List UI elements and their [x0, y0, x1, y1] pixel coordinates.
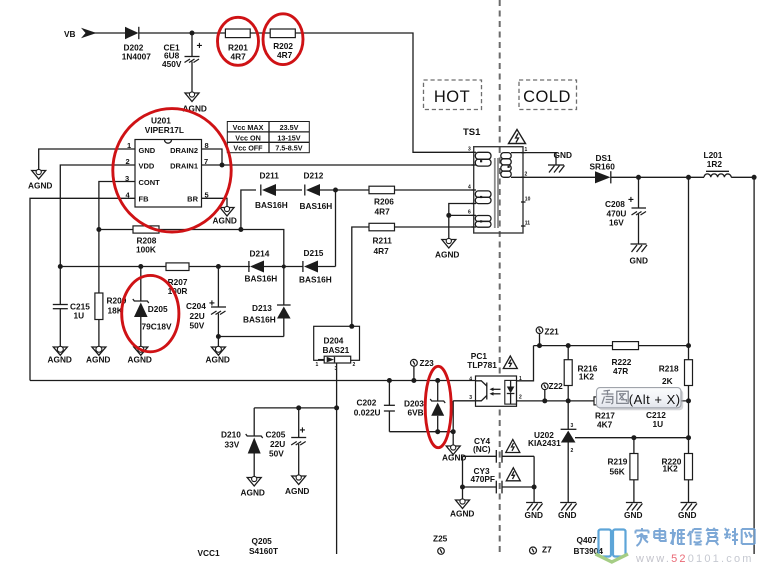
svg-text:79C18V: 79C18V [142, 321, 172, 331]
svg-text:11: 11 [525, 220, 531, 226]
diode D211 [255, 171, 302, 211]
node Z25 [433, 534, 448, 555]
tooltip 截图(Alt + X) [597, 388, 684, 411]
transistor Q205 label [249, 536, 278, 556]
svg-text:FB: FB [139, 195, 150, 204]
node R208 rail junction [238, 227, 243, 232]
node C204 top [216, 264, 221, 269]
ground AGND R209 [86, 346, 110, 364]
node Z21 [536, 326, 559, 345]
node Z22 [542, 381, 564, 401]
svg-text:4R7: 4R7 [374, 246, 390, 256]
wire secondary top to GND [511, 153, 556, 165]
capacitor CY4 [463, 436, 535, 463]
COLD label box [519, 80, 577, 110]
svg-text:D211: D211 [260, 171, 280, 181]
ground GND U202 [558, 503, 577, 521]
svg-text:Q407: Q407 [577, 535, 598, 545]
winding secondary W4 [501, 153, 511, 178]
svg-text:GND: GND [139, 146, 156, 155]
svg-text:VDD: VDD [139, 162, 155, 171]
wire R218 bottom to R220 [688, 401, 690, 454]
svg-text:Z25: Z25 [433, 534, 448, 544]
node D203 bottom [435, 429, 440, 434]
wire CY left to AGND [462, 487, 464, 500]
svg-text:KIA2431: KIA2431 [528, 438, 561, 448]
svg-text:4R7: 4R7 [375, 206, 391, 216]
wire feedback rail [30, 380, 476, 382]
node output corner [752, 175, 757, 180]
svg-text:AGND: AGND [206, 355, 230, 365]
svg-text:AGND: AGND [435, 250, 459, 260]
svg-text:0.022U: 0.022U [354, 407, 381, 417]
svg-text:3: 3 [571, 423, 574, 429]
capacitor C204 [186, 267, 226, 347]
ground AGND transformer [435, 238, 459, 259]
svg-text:7.5-8.5V: 7.5-8.5V [275, 144, 302, 153]
node D203 top [435, 378, 440, 383]
svg-text:56K: 56K [610, 467, 625, 477]
transformer core [495, 158, 498, 228]
zener D210 [221, 408, 263, 477]
svg-text:47R: 47R [613, 366, 628, 376]
svg-text:AGND: AGND [213, 216, 237, 226]
svg-text:www.520101.com: www.520101.com [635, 553, 754, 565]
wire CY caps right link [533, 456, 535, 487]
svg-text:D204: D204 [324, 336, 344, 346]
ground AGND C215 [48, 346, 72, 364]
svg-text:S4160T: S4160T [249, 546, 278, 556]
winding primary W2 [475, 191, 491, 204]
svg-text:D205: D205 [148, 304, 168, 314]
node D205 top [138, 264, 143, 269]
svg-text:1U: 1U [74, 310, 85, 320]
svg-text:D212: D212 [304, 171, 324, 181]
wire U201 pin5 BR to AGND [202, 198, 228, 207]
wire U201 pin2 VDD down to vcc rail [60, 165, 135, 267]
capacitor C212 label [646, 410, 666, 429]
svg-text:1K2: 1K2 [579, 371, 595, 381]
svg-text:BAS21: BAS21 [323, 345, 350, 355]
wire jog down to AGND [448, 215, 450, 239]
svg-text:2: 2 [571, 448, 574, 454]
wire R211 left down to D204 [352, 227, 369, 326]
svg-text:1U: 1U [653, 419, 664, 429]
wire R201 to R202 [250, 32, 270, 34]
svg-text:BAS16H: BAS16H [245, 273, 278, 283]
wire D202 to R201 [139, 32, 226, 34]
capacitor CY3 [463, 466, 535, 493]
svg-text:DRAIN1: DRAIN1 [170, 162, 198, 171]
svg-text:3: 3 [468, 147, 471, 153]
svg-text:4K7: 4K7 [597, 420, 613, 430]
wire VB to D202 [94, 32, 125, 34]
svg-text:GND: GND [624, 510, 642, 520]
svg-text:R219: R219 [608, 457, 628, 467]
wire R202 to transformer pin [295, 33, 473, 152]
svg-text:D213: D213 [252, 303, 272, 313]
winding primary W1 [475, 152, 491, 166]
ground GND R220 [678, 503, 697, 521]
warning triangle PC1 [503, 356, 517, 369]
ground AGND under CE1 [183, 92, 207, 114]
svg-text:100K: 100K [136, 245, 156, 255]
svg-text:+: + [628, 195, 634, 206]
diode D202 [122, 27, 151, 62]
svg-text:2K: 2K [662, 376, 673, 386]
node transformer jog [446, 213, 451, 218]
capacitor CE1 [162, 33, 203, 92]
svg-text:TLP781: TLP781 [467, 360, 497, 370]
svg-text:50V: 50V [190, 321, 205, 331]
red highlight ellipse D205 [122, 275, 179, 351]
svg-text:+: + [197, 41, 203, 52]
resistor R219 [608, 438, 638, 503]
svg-text:VCC1: VCC1 [198, 548, 221, 558]
node CY3 left [460, 485, 465, 490]
watermark text 家电维修资料网 [636, 528, 755, 546]
svg-text:DRAIN2: DRAIN2 [170, 146, 198, 155]
svg-text:AGND: AGND [241, 488, 265, 498]
red highlight ellipse U201 [113, 109, 231, 232]
wire CY right to GND [533, 487, 535, 503]
wire D204 pin3 down the page [336, 363, 338, 554]
svg-text:Z7: Z7 [542, 544, 552, 554]
node snubber mid junction [282, 265, 286, 269]
svg-text:SR160: SR160 [590, 162, 616, 172]
transformer pin stubs left [468, 147, 476, 227]
wire PC1 pin1 up to Z21 rail [517, 346, 534, 381]
wire W2 bottom jog to W3 top [449, 204, 474, 216]
svg-text:470PF: 470PF [471, 474, 495, 484]
wire R208 to snubber [159, 230, 284, 267]
transformer pin stubs right [521, 147, 531, 226]
node Z21 rail junction [537, 343, 542, 348]
svg-text:1K2: 1K2 [663, 464, 679, 474]
ground GND secondary top [548, 150, 572, 173]
svg-text:CONT: CONT [139, 178, 161, 187]
node R217 right junction [686, 398, 691, 403]
svg-text:GND: GND [554, 150, 572, 160]
warning triangle above TS1 [509, 130, 526, 144]
svg-text:TS1: TS1 [463, 127, 481, 138]
red highlight ellipse R202 [263, 14, 303, 65]
svg-text:(NC): (NC) [473, 444, 491, 454]
svg-text:C205: C205 [266, 429, 286, 439]
svg-text:16V: 16V [609, 217, 624, 227]
op-amp U201 VIPER17L [135, 116, 202, 208]
svg-text:Z21: Z21 [545, 326, 560, 336]
node CY3 right [532, 485, 537, 490]
svg-text:Z23: Z23 [420, 358, 435, 368]
shunt U202 KIA2431 [528, 401, 576, 503]
transistor Q407 label [574, 535, 604, 556]
node R216 bottom [566, 398, 571, 403]
ground AGND PC1 [442, 445, 466, 463]
wire D210/C205 rail [254, 407, 336, 409]
resistor R201 [225, 29, 250, 62]
svg-text:R211: R211 [373, 235, 393, 245]
node C202 top [387, 378, 392, 383]
svg-text:Vcc ON: Vcc ON [235, 133, 261, 142]
wire D212 junction down to D215 [335, 190, 337, 267]
svg-text:(Alt + X): (Alt + X) [629, 392, 681, 407]
svg-text:U201: U201 [151, 116, 171, 126]
wire U201 pin8 DRAIN2 to pin7 [202, 149, 223, 165]
wire U201 pin7 DRAIN1 to transformer [202, 164, 474, 166]
svg-text:R206: R206 [374, 196, 394, 206]
wire DS1 to L201 [611, 176, 704, 178]
svg-text:GND: GND [525, 510, 543, 520]
node D204 top [349, 324, 354, 329]
node VB [64, 28, 97, 39]
svg-text:6VB: 6VB [408, 407, 424, 417]
node junction at CE1 [190, 31, 195, 36]
warning triangle CY4 [506, 440, 520, 453]
winding primary W3 [475, 216, 491, 228]
svg-text:D215: D215 [304, 248, 324, 258]
svg-text:BAS16H: BAS16H [299, 274, 332, 284]
svg-text:BAS16H: BAS16H [300, 201, 333, 211]
ground AGND CY [450, 499, 474, 519]
resistor R209 [95, 230, 127, 347]
svg-text:GND: GND [630, 256, 648, 266]
diode D212 [300, 171, 370, 211]
opto-coupler PC1 TLP781 [467, 351, 522, 406]
node C204 bottom [216, 334, 221, 339]
wire U201 pin1 GND to AGND [39, 149, 135, 170]
svg-text:+: + [209, 299, 215, 310]
zener D203 [404, 381, 445, 432]
svg-text:BAS16H: BAS16H [255, 200, 288, 210]
wire PC1 pin2 to Z22 rail [517, 400, 595, 402]
svg-text:4: 4 [469, 376, 472, 382]
HOT label box [424, 80, 482, 110]
red highlight ellipse R201 [218, 17, 259, 65]
node C208 top [636, 175, 641, 180]
svg-text:AGND: AGND [285, 486, 309, 496]
ground AGND pin1 [28, 169, 52, 190]
svg-text:+: + [300, 426, 306, 437]
svg-text:Vcc MAX: Vcc MAX [233, 123, 264, 132]
node Z23 [411, 358, 435, 381]
wire U202 ref rail [575, 437, 689, 439]
wire PC1 pin3 [453, 400, 475, 402]
svg-text:Z22: Z22 [549, 381, 564, 391]
wire PC1 pin3 down to AGND [452, 401, 454, 446]
svg-text:VB: VB [64, 29, 76, 39]
diode DS1 [590, 153, 616, 184]
svg-text:D214: D214 [250, 249, 270, 259]
svg-text:2: 2 [519, 395, 522, 401]
svg-text:BAS16H: BAS16H [243, 314, 276, 324]
zener D205 [133, 267, 172, 347]
node pin3 return junction [451, 429, 456, 434]
hot/cold isolation dashed line [499, 0, 501, 556]
svg-text:Q205: Q205 [252, 536, 273, 546]
svg-text:10: 10 [525, 196, 531, 202]
node Z7 [530, 544, 553, 554]
svg-text:COLD: COLD [523, 88, 571, 106]
svg-text:D210: D210 [221, 429, 241, 439]
svg-text:C202: C202 [357, 398, 377, 408]
capacitor C205 [266, 408, 307, 476]
node Z22 rail junction [542, 398, 547, 403]
ground AGND pin5 [213, 206, 237, 225]
svg-text:AGND: AGND [28, 181, 52, 191]
ground AGND D205 [128, 346, 152, 364]
ground AGND C205 [285, 475, 309, 496]
wire CONT junction to R208 [99, 229, 133, 231]
node Z23 rail junction [411, 378, 416, 383]
svg-text:VIPER17L: VIPER17L [145, 125, 184, 135]
svg-text:R218: R218 [659, 364, 679, 374]
warning triangle CY3 [506, 468, 520, 481]
resistor R211 [369, 223, 474, 256]
wire output branch down [688, 177, 690, 345]
diode D213 [243, 267, 291, 337]
svg-text:4R7: 4R7 [277, 50, 293, 60]
node output branch [686, 175, 691, 180]
node R218 top junction [686, 343, 691, 348]
node vcc rail left [58, 264, 63, 269]
svg-text:1N4007: 1N4007 [122, 51, 151, 61]
transformer TS1 [463, 127, 523, 233]
svg-text:BR: BR [187, 195, 198, 204]
svg-text:4: 4 [468, 184, 471, 190]
node R216 top [566, 343, 571, 348]
wire vcc rail [60, 266, 250, 268]
svg-text:22U: 22U [270, 439, 285, 449]
wire CY caps left link [462, 456, 464, 487]
resistor R202 [270, 29, 295, 60]
svg-text:23.5V: 23.5V [280, 123, 299, 132]
svg-text:2: 2 [353, 362, 356, 368]
svg-text:AGND: AGND [450, 509, 474, 519]
svg-text:AGND: AGND [48, 355, 72, 365]
svg-text:AGND: AGND [86, 355, 110, 365]
resistor R208 [133, 226, 159, 255]
node pin3 rail junction [334, 405, 339, 410]
resistor R217 [594, 397, 689, 430]
ground GND R219 [624, 503, 642, 521]
ground AGND C204 [206, 346, 230, 364]
svg-text:AGND: AGND [128, 355, 152, 365]
watermark book icon [596, 530, 629, 563]
wire Z21 rail [534, 345, 613, 347]
ground AGND D210 [241, 476, 265, 497]
node ref rail right [686, 435, 691, 440]
node C205 top [296, 405, 301, 410]
svg-text:1R2: 1R2 [707, 159, 723, 169]
diode D214 [245, 249, 304, 284]
wire U201 pin4 FB to left feedback bus [30, 198, 135, 380]
svg-text:3: 3 [469, 395, 472, 401]
wire L201 to right edge [731, 177, 754, 554]
resistor R206 [369, 186, 474, 216]
wire U201 pin3 CONT down [99, 182, 135, 230]
resistor R220 [662, 454, 693, 503]
svg-text:HOT: HOT [434, 88, 470, 106]
svg-text:4R7: 4R7 [231, 52, 247, 62]
svg-text:33V: 33V [225, 440, 240, 450]
svg-text:C204: C204 [186, 301, 206, 311]
ground GND CY [525, 503, 543, 521]
svg-text:450V: 450V [162, 59, 182, 69]
svg-text:Vcc OFF: Vcc OFF [233, 144, 263, 153]
red highlight ellipse D203 [425, 366, 451, 447]
svg-text:1: 1 [316, 362, 319, 368]
resistor R222 [612, 342, 689, 376]
svg-text:GND: GND [678, 510, 696, 520]
capacitor C202 [354, 381, 395, 432]
capacitor C215 [53, 267, 90, 347]
node pin7 junction [220, 163, 225, 168]
resistor R218 [659, 346, 693, 401]
svg-text:GND: GND [558, 510, 576, 520]
wire bottom return rail [389, 431, 453, 433]
node R219 top [631, 435, 636, 440]
ground GND C208 [630, 244, 648, 266]
svg-text:50V: 50V [269, 449, 284, 459]
inductor L201 [704, 150, 732, 178]
node D212 cathode junction [333, 188, 338, 193]
node CONT junction [96, 227, 101, 232]
resistor R207 [166, 263, 189, 296]
wire secondary bottom to DS1 [511, 176, 595, 178]
svg-text:22U: 22U [190, 311, 205, 321]
wire up to D211 anode [241, 190, 256, 230]
svg-text:13-15V: 13-15V [277, 133, 300, 142]
table Vcc thresholds [227, 122, 309, 153]
diode D204 BAS21 [314, 326, 360, 372]
resistor R216 [564, 346, 598, 401]
diode D215 [299, 248, 336, 284]
wire C204 bottom to D213 [218, 336, 283, 338]
capacitor C208 [605, 177, 646, 244]
